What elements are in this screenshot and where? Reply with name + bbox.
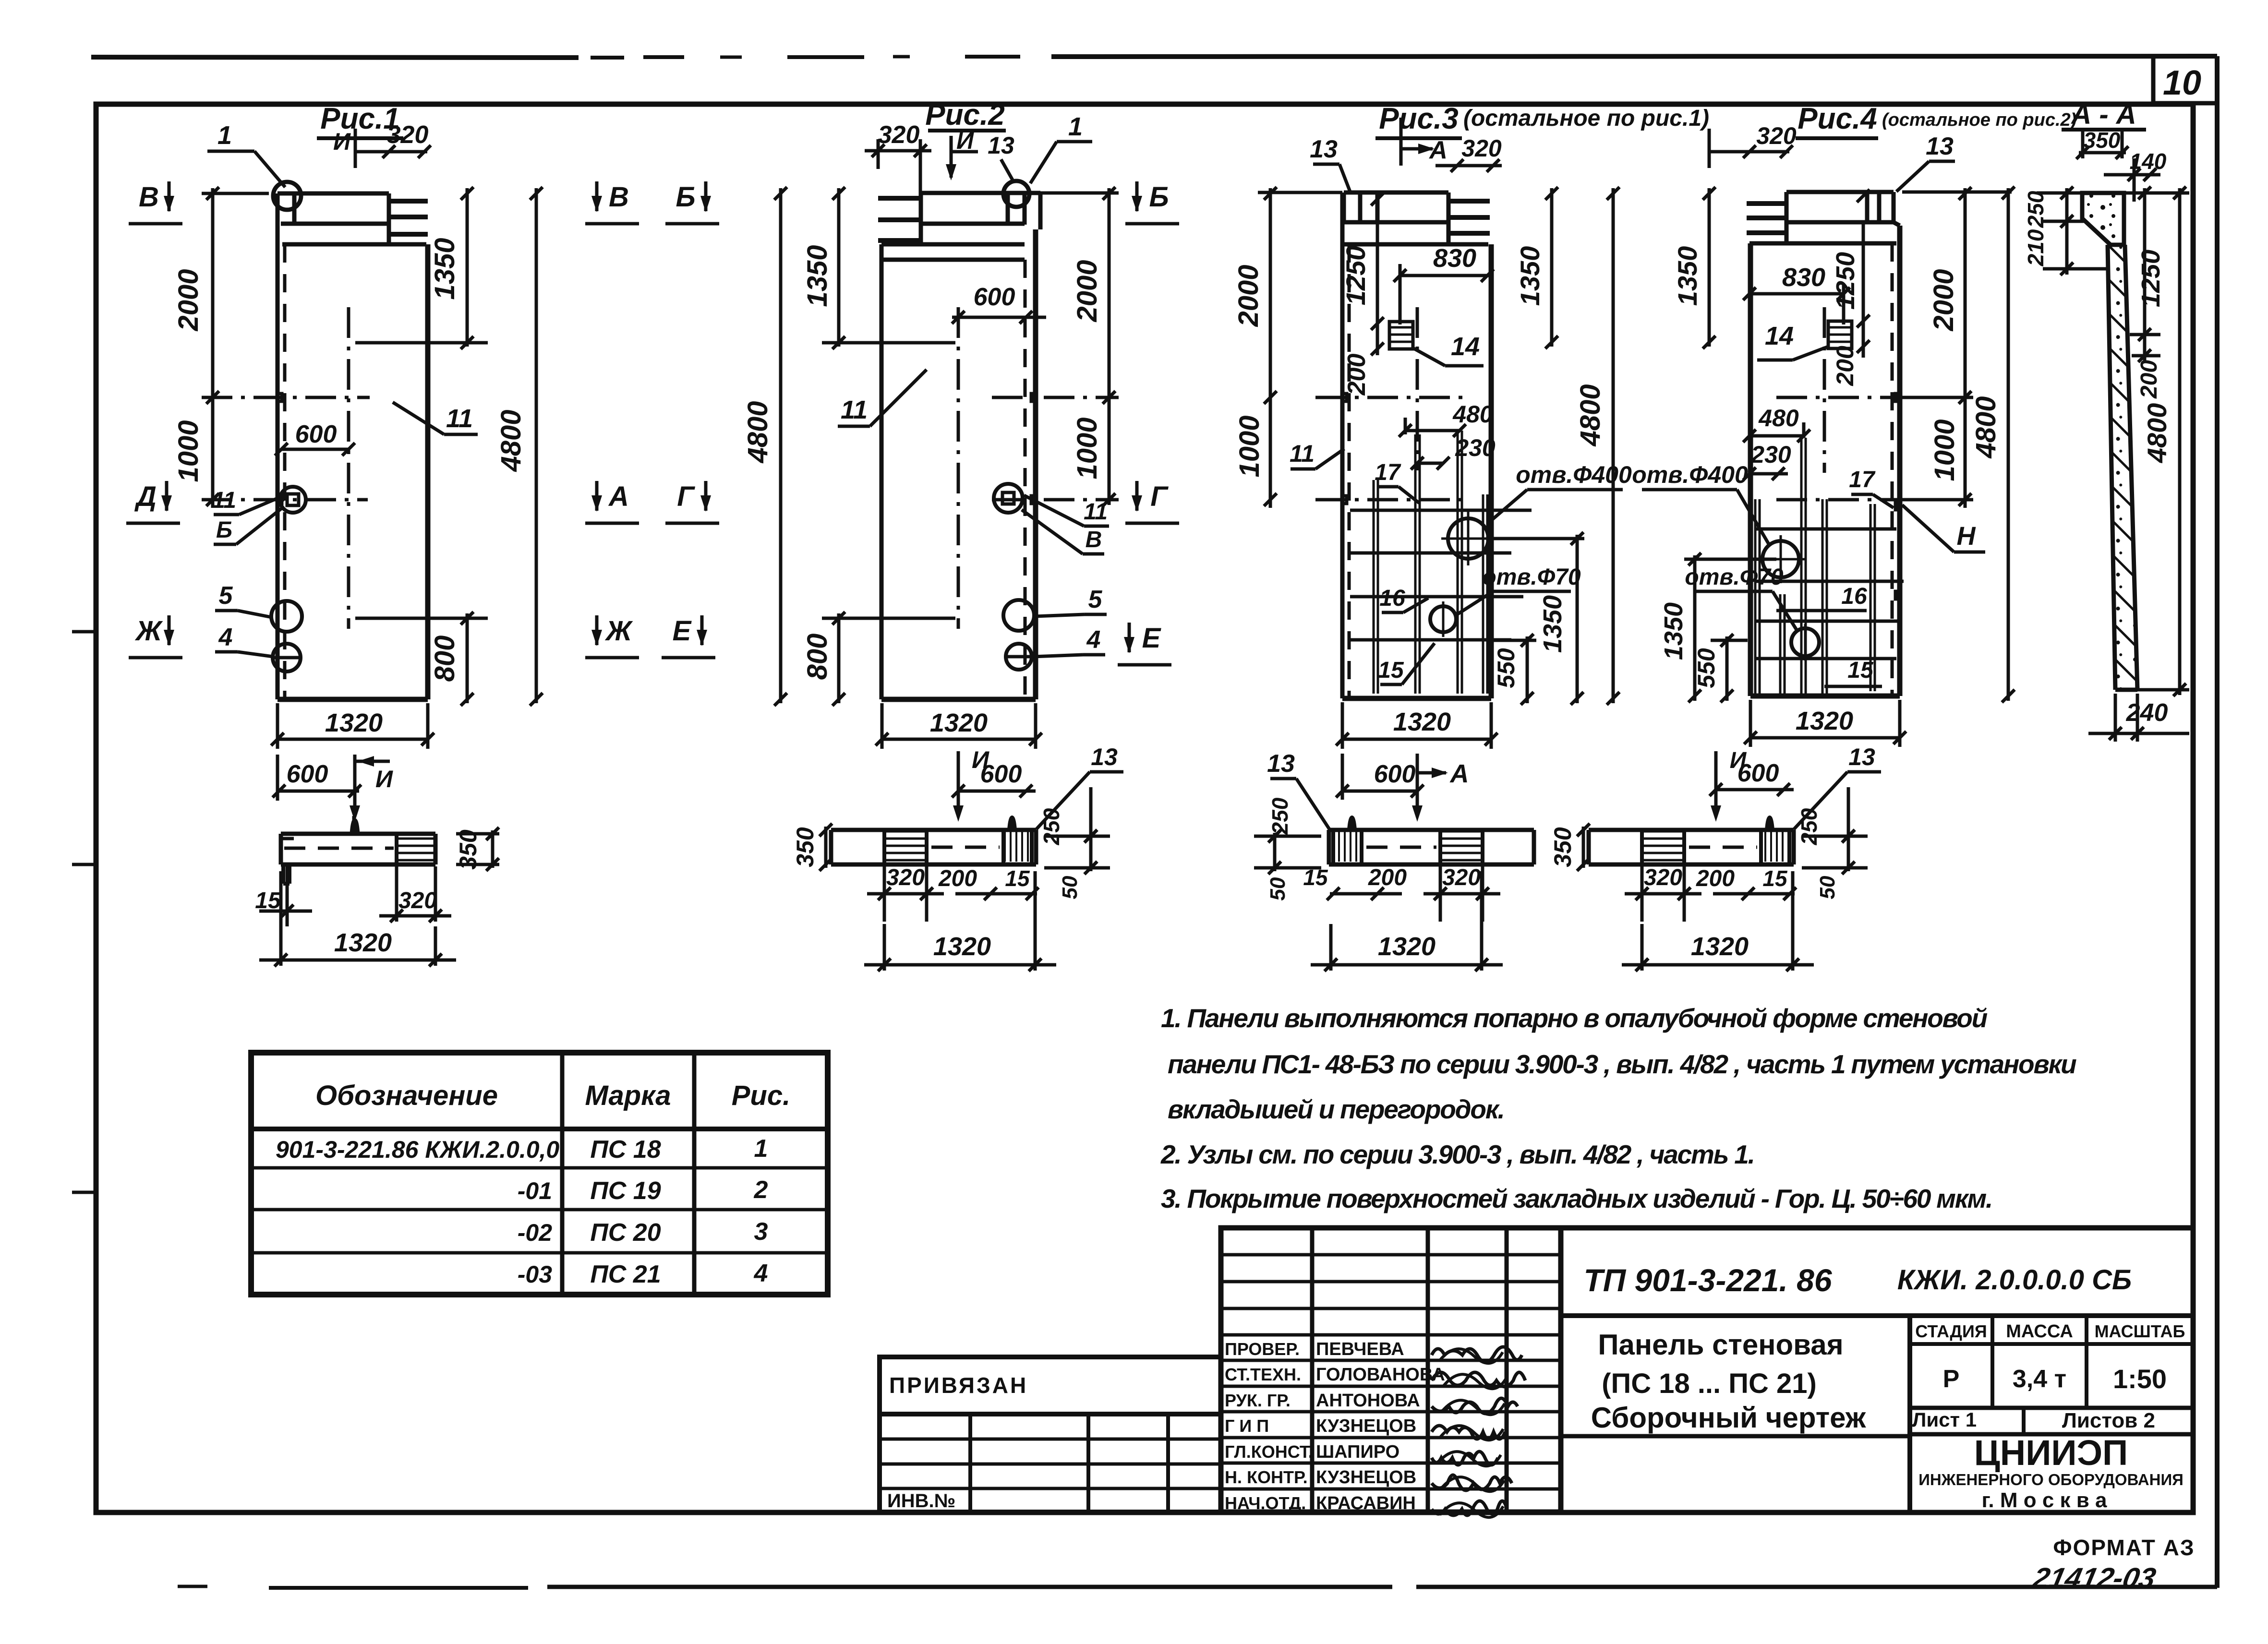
svg-text:1: 1	[1068, 112, 1083, 141]
svg-text:ИНВ.№: ИНВ.№	[887, 1490, 955, 1512]
svg-text:200: 200	[1368, 865, 1407, 890]
svg-text:Н: Н	[1957, 522, 1976, 551]
svg-text:отв.Ф70: отв.Ф70	[1685, 564, 1784, 590]
svg-text:1250: 1250	[1340, 246, 1371, 306]
svg-text:210: 210	[2023, 229, 2048, 266]
svg-text:КУЗНЕЦОВ: КУЗНЕЦОВ	[1316, 1467, 1416, 1488]
svg-text:-03: -03	[518, 1261, 552, 1288]
svg-text:13: 13	[1310, 135, 1338, 163]
svg-text:15: 15	[1378, 658, 1404, 683]
svg-text:2000: 2000	[173, 269, 204, 331]
svg-text:230: 230	[1750, 441, 1791, 468]
svg-text:1350: 1350	[1538, 595, 1567, 653]
svg-text:1250: 1250	[1831, 252, 1860, 310]
svg-text:240: 240	[2126, 699, 2168, 727]
svg-text:600: 600	[1374, 760, 1416, 788]
svg-text:4800: 4800	[742, 401, 773, 463]
svg-text:13: 13	[1848, 744, 1875, 770]
svg-text:50: 50	[1058, 876, 1082, 899]
svg-text:4: 4	[218, 624, 233, 651]
svg-text:320: 320	[387, 121, 429, 149]
svg-text:2: 2	[754, 1176, 768, 1204]
svg-text:1000: 1000	[1234, 415, 1265, 477]
svg-text:320: 320	[1461, 135, 1502, 162]
svg-text:600: 600	[1737, 759, 1779, 787]
svg-text:480: 480	[1758, 405, 1799, 432]
svg-text:3,4 т: 3,4 т	[2013, 1365, 2066, 1393]
svg-text:1000: 1000	[1929, 419, 1960, 481]
svg-text:Г И П: Г И П	[1225, 1416, 1269, 1436]
svg-text:21412-03: 21412-03	[2030, 1562, 2159, 1594]
svg-text:5: 5	[1088, 586, 1103, 613]
svg-text:13: 13	[1091, 744, 1118, 770]
svg-text:Лист 1: Лист 1	[1912, 1408, 1977, 1431]
svg-text:ПРОВЕР.: ПРОВЕР.	[1225, 1339, 1300, 1359]
svg-text:13: 13	[988, 132, 1014, 159]
svg-text:3: 3	[754, 1218, 768, 1246]
svg-text:Рис.3: Рис.3	[1379, 102, 1458, 135]
svg-text:Н. КОНТР.: Н. КОНТР.	[1225, 1467, 1308, 1487]
svg-text:(ПС 18 ... ПС 21): (ПС 18 ... ПС 21)	[1602, 1368, 1817, 1399]
svg-text:1320: 1320	[930, 708, 988, 737]
svg-text:1320: 1320	[334, 928, 392, 957]
svg-text:200: 200	[2136, 360, 2162, 399]
svg-text:4800: 4800	[1575, 384, 1606, 446]
svg-text:г. М о с к в а: г. М о с к в а	[1981, 1488, 2107, 1512]
svg-text:И: И	[972, 746, 989, 773]
svg-text:15: 15	[1847, 658, 1874, 683]
svg-text:16: 16	[1841, 584, 1867, 609]
svg-text:РУК. ГР.: РУК. ГР.	[1225, 1391, 1291, 1410]
svg-text:ПС 18: ПС 18	[590, 1136, 661, 1164]
svg-text:17: 17	[1375, 460, 1401, 485]
svg-text:800: 800	[802, 634, 833, 680]
svg-text:А: А	[608, 481, 629, 512]
svg-text:Марка: Марка	[585, 1080, 671, 1111]
svg-text:НАЧ.ОТД.: НАЧ.ОТД.	[1225, 1493, 1306, 1513]
svg-text:4: 4	[754, 1260, 768, 1287]
svg-text:ПС 21: ПС 21	[590, 1260, 661, 1288]
svg-text:550: 550	[1493, 648, 1520, 688]
svg-text:Рис.2: Рис.2	[925, 98, 1004, 132]
svg-text:14: 14	[1765, 322, 1794, 350]
svg-text:1350: 1350	[1659, 602, 1688, 660]
svg-text:Сборочный чертеж: Сборочный чертеж	[1591, 1402, 1867, 1434]
svg-text:2. Узлы см. по серии 3.900-: 2. Узлы см. по серии 3.900-3 , вып. 4/82…	[1160, 1140, 1754, 1169]
svg-text:ПС 20: ПС 20	[590, 1219, 661, 1247]
svg-text:ПЕВЧЕВА: ПЕВЧЕВА	[1316, 1339, 1404, 1359]
svg-text:-02: -02	[518, 1219, 552, 1246]
svg-text:15: 15	[1762, 866, 1788, 891]
svg-text:2000: 2000	[1928, 269, 1959, 331]
svg-text:В: В	[609, 181, 629, 213]
svg-text:4800: 4800	[1970, 396, 2002, 458]
svg-text:13: 13	[1267, 750, 1295, 778]
svg-text:2000: 2000	[1072, 260, 1103, 322]
svg-text:отв.Ф400: отв.Ф400	[1516, 461, 1632, 488]
svg-text:МАСШТАБ: МАСШТАБ	[2095, 1321, 2185, 1341]
svg-text:14: 14	[1451, 332, 1480, 361]
svg-text:1320: 1320	[1796, 707, 1853, 735]
svg-text:ПРИВЯЗАН: ПРИВЯЗАН	[889, 1373, 1028, 1398]
svg-text:10: 10	[2163, 64, 2201, 102]
svg-text:1320: 1320	[933, 932, 991, 961]
svg-text:320: 320	[1644, 865, 1682, 890]
svg-text:250: 250	[1267, 797, 1292, 835]
svg-text:320: 320	[878, 121, 920, 149]
svg-text:1320: 1320	[1393, 708, 1451, 736]
svg-text:АНТОНОВА: АНТОНОВА	[1316, 1391, 1420, 1411]
svg-text:600: 600	[287, 760, 328, 788]
svg-text:И: И	[333, 128, 351, 155]
svg-text:Б: Б	[1149, 181, 1169, 213]
svg-text:вкладышей и перегородок.: вкладышей и перегородок.	[1168, 1094, 1504, 1124]
svg-text:Панель стеновая: Панель стеновая	[1598, 1329, 1843, 1361]
svg-text:В: В	[1086, 527, 1102, 552]
svg-text:1: 1	[217, 121, 232, 150]
svg-text:11: 11	[446, 404, 473, 433]
svg-text:320: 320	[398, 888, 437, 913]
svg-text:250: 250	[2023, 191, 2048, 228]
svg-text:901-3-221.86 КЖИ.2.0.0,0: 901-3-221.86 КЖИ.2.0.0,0	[276, 1136, 559, 1163]
svg-text:Г: Г	[677, 481, 695, 512]
svg-text:А - А: А - А	[2070, 99, 2136, 130]
svg-text:ИНЖЕНЕРНОГО ОБОРУДОВАНИЯ: ИНЖЕНЕРНОГО ОБОРУДОВАНИЯ	[1918, 1471, 2184, 1488]
svg-text:11: 11	[1084, 499, 1108, 525]
svg-text:(остальное по рис.1): (остальное по рис.1)	[1463, 106, 1709, 131]
svg-text:МАССА: МАССА	[2006, 1321, 2073, 1342]
svg-text:КЖИ. 2.0.0.0.0 СБ: КЖИ. 2.0.0.0.0 СБ	[1897, 1264, 2132, 1296]
svg-text:Ж: Ж	[134, 615, 163, 647]
svg-text:панели ПС1- 48-БЗ по серии: панели ПС1- 48-БЗ по серии 3.900-3 , вып…	[1168, 1049, 2076, 1079]
svg-text:1350: 1350	[1672, 246, 1702, 306]
svg-text:50: 50	[1816, 876, 1839, 899]
svg-text:Рис.4: Рис.4	[1798, 102, 1877, 135]
svg-text:200: 200	[1832, 346, 1858, 386]
svg-text:Е: Е	[1142, 623, 1162, 654]
svg-text:11: 11	[212, 488, 236, 513]
svg-text:13: 13	[1926, 132, 1954, 160]
svg-text:отв.Ф70: отв.Ф70	[1482, 564, 1581, 590]
svg-text:А: А	[1428, 136, 1448, 164]
svg-text:17: 17	[1849, 467, 1876, 492]
svg-text:ПС 19: ПС 19	[590, 1177, 661, 1205]
svg-text:Б: Б	[216, 517, 232, 543]
svg-text:Листов 2: Листов 2	[2062, 1409, 2155, 1432]
svg-text:50: 50	[1266, 877, 1290, 900]
svg-text:1:50: 1:50	[2113, 1364, 2167, 1394]
svg-text:Рис.: Рис.	[732, 1080, 791, 1111]
svg-text:-01: -01	[518, 1177, 552, 1204]
svg-text:ГЛ.КОНСТ.: ГЛ.КОНСТ.	[1225, 1442, 1313, 1462]
svg-text:200: 200	[1696, 866, 1735, 891]
svg-text:Обозначение: Обозначение	[315, 1080, 498, 1111]
svg-text:Р: Р	[1943, 1365, 1960, 1393]
svg-text:1320: 1320	[325, 708, 383, 737]
svg-text:350: 350	[2084, 128, 2121, 153]
svg-text:320: 320	[886, 865, 925, 890]
svg-text:Г: Г	[1150, 481, 1169, 512]
svg-text:1000: 1000	[173, 420, 204, 482]
svg-text:1. Панели выполняются попар: 1. Панели выполняются попарно в опалубоч…	[1161, 1003, 1988, 1033]
svg-text:1350: 1350	[429, 238, 460, 300]
svg-text:830: 830	[1433, 244, 1476, 273]
svg-text:4: 4	[1086, 626, 1101, 654]
svg-text:320: 320	[1756, 122, 1797, 149]
svg-text:(остальное по рис.2): (остальное по рис.2)	[1882, 110, 2076, 130]
svg-text:Е: Е	[673, 615, 692, 647]
svg-text:600: 600	[295, 420, 337, 448]
svg-text:ТП 901-3-221. 86: ТП 901-3-221. 86	[1583, 1262, 1832, 1298]
svg-text:1000: 1000	[1072, 417, 1103, 479]
svg-text:А: А	[1449, 759, 1469, 788]
svg-text:11: 11	[841, 396, 868, 424]
svg-text:СТ.ТЕХН.: СТ.ТЕХН.	[1225, 1365, 1301, 1384]
svg-text:4800: 4800	[495, 409, 527, 472]
svg-text:1320: 1320	[1691, 932, 1749, 961]
svg-text:480: 480	[1452, 401, 1493, 428]
svg-text:200: 200	[938, 866, 977, 891]
svg-text:550: 550	[1693, 648, 1720, 688]
svg-text:830: 830	[1782, 263, 1825, 292]
svg-text:Ж: Ж	[604, 615, 633, 647]
svg-text:1350: 1350	[1515, 246, 1545, 306]
svg-text:отв.Ф400: отв.Ф400	[1632, 461, 1748, 488]
svg-text:600: 600	[974, 283, 1015, 311]
svg-text:1350: 1350	[802, 245, 833, 307]
svg-text:Д: Д	[134, 481, 157, 512]
svg-text:200: 200	[1343, 354, 1371, 396]
svg-text:ШАПИРО: ШАПИРО	[1316, 1442, 1399, 1462]
svg-text:ГОЛОВАНОВА: ГОЛОВАНОВА	[1316, 1365, 1445, 1385]
svg-text:1: 1	[754, 1135, 768, 1163]
svg-text:800: 800	[429, 636, 460, 682]
svg-text:КРАСАВИН: КРАСАВИН	[1316, 1493, 1416, 1513]
svg-text:Б: Б	[676, 181, 695, 213]
svg-text:350: 350	[792, 827, 819, 867]
svg-text:ЦНИИƆП: ЦНИИƆП	[1974, 1433, 2128, 1473]
svg-text:3. Покрытие поверхностей зак: 3. Покрытие поверхностей закладных издел…	[1161, 1184, 1992, 1213]
svg-text:350: 350	[1549, 827, 1576, 867]
svg-text:В: В	[139, 181, 159, 213]
svg-text:16: 16	[1379, 586, 1405, 611]
svg-text:КУЗНЕЦОВ: КУЗНЕЦОВ	[1316, 1416, 1416, 1436]
svg-text:И: И	[956, 127, 974, 154]
svg-text:11: 11	[1290, 440, 1315, 467]
svg-text:1250: 1250	[2136, 250, 2165, 307]
svg-text:1320: 1320	[1378, 932, 1436, 961]
svg-text:СТАДИЯ: СТАДИЯ	[1915, 1321, 1987, 1341]
svg-text:И: И	[375, 766, 393, 792]
svg-text:ФОРМАТ АЗ: ФОРМАТ АЗ	[2053, 1535, 2195, 1560]
svg-text:15: 15	[1005, 866, 1030, 891]
svg-text:4800: 4800	[2142, 403, 2172, 464]
svg-text:2000: 2000	[1233, 264, 1264, 327]
svg-text:5: 5	[219, 582, 233, 610]
svg-text:320: 320	[1442, 865, 1481, 890]
